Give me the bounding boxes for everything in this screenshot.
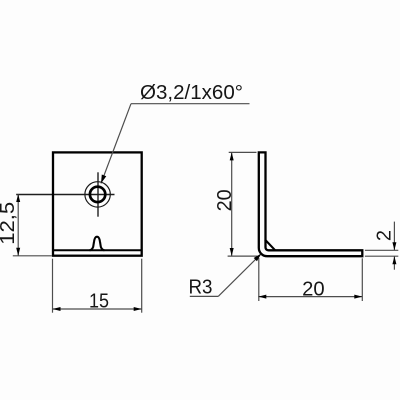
- R3 leader underline: [190, 295, 218, 297]
- hole label leader diagonal: [101, 104, 131, 184]
- thickness 2: extension top: [365, 249, 398, 251]
- thickness 2 dimension line lower: [393, 256, 395, 270]
- front view plate outline: [53, 152, 142, 255]
- side 20 vertical: extension bottom: [228, 255, 258, 257]
- thickness 2 arrow (points up to bottom face): [392, 256, 396, 264]
- side 20 vertical arrow down: [230, 248, 234, 256]
- front view bend line: [53, 249, 142, 251]
- side 20 horizontal: extension left: [258, 258, 260, 301]
- dimension 12,5 line: [17, 194, 19, 256]
- side 20 horizontal arrow left: [258, 295, 266, 299]
- side 20 vertical arrow up: [230, 152, 234, 160]
- dimension 15 arrow left: [53, 307, 61, 311]
- side view L-profile outline: [259, 152, 363, 256]
- svg-text:20: 20: [302, 279, 325, 301]
- svg-text:12,5: 12,5: [0, 202, 19, 245]
- svg-text:Ø3,2/1x60°: Ø3,2/1x60°: [140, 82, 243, 104]
- side 20 horizontal: extension right: [361, 258, 363, 301]
- dimension 15 extension line right: [141, 259, 143, 313]
- svg-text:15: 15: [89, 291, 109, 313]
- dimension 15 extension line left: [52, 259, 54, 313]
- hole label leader arrowhead: [101, 175, 106, 184]
- dimension 15 arrow right: [134, 307, 142, 311]
- hole horizontal centerline / 12,5 top extension: [16, 194, 114, 196]
- thickness 2 arrow (points down to top face): [392, 242, 396, 250]
- front view: extension line bottom of 12,5 dim: [13, 255, 52, 257]
- side 20 vertical: extension top: [229, 151, 257, 153]
- dimension 15 line: [53, 308, 142, 310]
- dimension 12,5 arrow down: [16, 248, 20, 256]
- thickness 2 dimension line upper: [393, 222, 395, 251]
- side 20 horizontal dimension line: [258, 296, 362, 298]
- dimension 12,5 arrow up: [16, 194, 20, 202]
- hole vertical centerline: [97, 172, 99, 216]
- svg-text:20: 20: [214, 189, 236, 211]
- R3 leader diagonal: [218, 254, 261, 296]
- side 20 vertical dimension line: [231, 152, 233, 256]
- side view rib diagonal: [265, 240, 275, 251]
- hole Ø3,2 (thick circle): [90, 187, 105, 202]
- thickness 2: extension bottom: [365, 255, 398, 257]
- countersink circle (thin): [85, 182, 110, 207]
- stiffening rib bump (front view): [90, 237, 105, 251]
- R3 leader arrowhead: [254, 254, 262, 262]
- svg-text:R3: R3: [189, 276, 213, 298]
- svg-text:2: 2: [374, 230, 396, 241]
- hole label leader shoulder: [131, 103, 250, 105]
- side 20 horizontal arrow right: [354, 295, 362, 299]
